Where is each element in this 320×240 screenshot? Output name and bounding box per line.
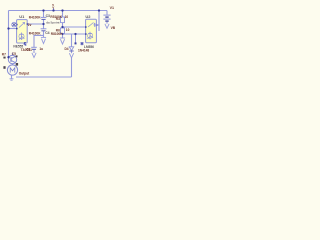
svg-text:1u: 1u [39,47,43,51]
svg-text:2v: 2v [28,23,32,27]
wire node C to U2 pin y34 [63,33,86,35]
junction node D [74,33,76,35]
wire node B to U2 pin y27 [63,26,86,28]
capacitor C1 [31,47,37,49]
junction node B [61,26,63,28]
U1 internal oscillator arrow [19,23,25,28]
junction node rail-VCC stub [52,9,54,11]
svg-text:C4: C4 [45,31,49,35]
svg-text:U2: U2 [85,14,91,19]
wire node A horizontal U1 out [27,23,43,25]
capacitor C4 [41,29,47,31]
U2 internal oscillator arrow [88,23,96,28]
wire Q1 top stub [12,53,14,56]
wire C4 bottom lead [43,31,45,37]
Q1 emitter tag [16,63,18,66]
svg-text:R3: R3 [56,17,60,21]
svg-text:VB: VB [111,26,116,30]
capacitor C3 [41,17,47,19]
wire U1 trigger pin from left rail [9,28,17,30]
IC U2 box [86,19,97,43]
ground under C4 [41,37,46,43]
svg-text:R6: R6 [56,29,60,33]
port arrow on output drop [69,53,73,58]
transistor Q1 [8,55,16,63]
wire U2 output pin [97,24,100,26]
U1 pin nubs [16,23,28,43]
wire branch to C1 [34,35,44,47]
svg-text:U1: U1 [19,14,25,19]
svg-text:10: 10 [65,15,69,19]
junction node left rail trigger [7,27,9,29]
svg-text:R7: R7 [2,53,6,57]
svg-text:R4100K: R4100K [29,16,41,20]
wire U2 output vertical [98,11,100,32]
background [0,0,120,84]
U2 bottom pin marker [81,42,84,45]
wire C1 to ground [33,50,35,54]
svg-text:D4: D4 [65,47,69,51]
junction node rail-C3 [42,9,44,11]
Q1 collector tag [16,55,18,57]
terminal stub TP1 [75,34,77,43]
wire D4 top lead [71,34,73,47]
wire D4 bottom lead to port arrow [71,51,73,53]
wire C3-C4 mid lead [43,20,45,29]
svg-text:C3: C3 [46,14,50,18]
U1 trigger input glyph [12,22,17,27]
Q1 base tag [3,57,5,59]
U1 internal transistor [19,33,25,41]
ground under battery [105,24,109,29]
wire Q1-M1 link [12,63,14,65]
IC U1 box [17,20,28,43]
wire R6 to ground [62,34,64,38]
wire R3 top lead [62,11,64,18]
wire M1 bottom stub [11,75,13,79]
U2 pin nubs [85,24,97,35]
wire left rail to Q1 [8,56,11,59]
junction node C [61,33,63,35]
wire left rail [8,11,10,58]
wire right drop to bottom rail [71,58,73,77]
junction node rail-R3 [61,9,63,11]
U2 internal transistor [87,32,93,40]
wire R3-R6 lead [62,23,64,28]
M1 left tag [3,66,5,69]
diode D4 [69,47,73,51]
resistor R3 [61,17,65,23]
svg-text:V1: V1 [110,6,114,10]
ground under M1 [10,79,14,80]
wire C3 top lead [43,11,45,18]
svg-text:10: 10 [66,28,70,32]
svg-text:1N4148: 1N4148 [78,48,89,52]
U2 output pin glyph [95,24,97,27]
motor M1 [7,65,17,75]
svg-text:Output: Output [19,71,30,75]
junction node rail-U2out [98,9,100,11]
junction node A [42,23,44,25]
battery V1 [103,15,110,24]
ground under R6 [60,38,65,44]
wire VCC stub [53,8,55,10]
junction node left rail Q1 [7,56,9,58]
resistor R6 [61,28,65,34]
wire bottom rail [16,76,72,78]
svg-text:C5: C5 [12,52,16,56]
U1 bottom pin marker [24,43,27,45]
ground under C1 [32,53,36,58]
svg-text:TA0051: TA0051 [21,48,32,52]
wire VCC top rail [9,10,108,12]
wire battery drop [106,11,108,15]
svg-text:R4100K: R4100K [29,32,41,36]
